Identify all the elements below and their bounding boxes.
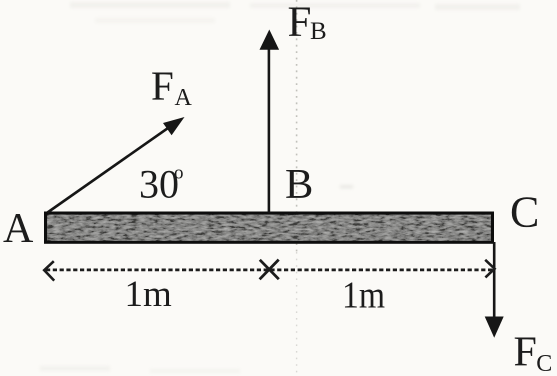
svg-text:F: F <box>151 63 174 109</box>
svg-text:30: 30 <box>139 162 179 207</box>
dimension left open arrowhead <box>44 261 54 280</box>
svg-text:B: B <box>310 18 327 45</box>
label F_B <box>288 0 327 46</box>
label 30 degrees <box>139 162 184 207</box>
svg-text:F: F <box>288 0 312 46</box>
dimension right open arrowhead <box>485 260 494 278</box>
svg-text:B: B <box>285 161 313 208</box>
beam AC (member from A to C) <box>46 213 493 242</box>
svg-text:1m: 1m <box>342 275 385 317</box>
vertical dotted crease line through B <box>296 0 298 252</box>
dimension dashed line A to C <box>46 269 493 272</box>
svg-text:F: F <box>514 330 537 376</box>
force arrow F_C (downward at C) <box>485 242 504 338</box>
force arrow F_B (vertical at B) <box>260 30 280 213</box>
dimension midpoint X marker <box>260 260 279 280</box>
label F_C <box>514 330 553 376</box>
faint bleed-through smudges bottom <box>40 185 353 373</box>
label F_A <box>151 63 193 111</box>
svg-text:1m: 1m <box>125 274 173 315</box>
faint bleed-through smudges top <box>70 2 520 23</box>
svg-text:A: A <box>3 206 34 252</box>
svg-text:C: C <box>510 187 539 236</box>
svg-text:C: C <box>536 351 552 376</box>
force arrow F_A (30 deg at end A) <box>48 117 185 213</box>
svg-text:o: o <box>174 163 184 184</box>
svg-text:A: A <box>175 85 193 111</box>
